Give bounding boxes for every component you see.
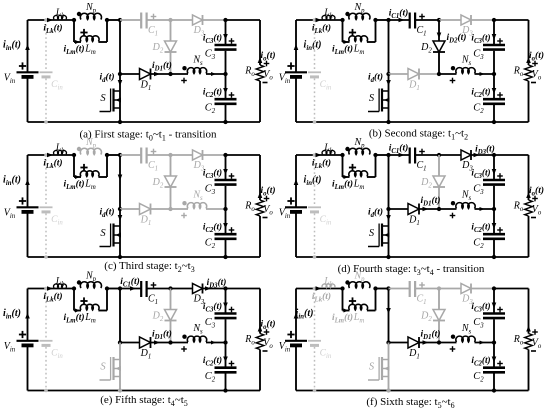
svg-text:S: S [100,362,106,373]
middle node below switch (c) [118,207,122,211]
svg-text:iin​(t): iin​(t) [304,40,322,53]
current label i_C3(t) with arrow (f) [471,301,502,314]
wire node C down to middle node (e) [119,289,121,343]
wire D1 to node F (f) [419,340,439,345]
diode D1 (f) [408,337,420,361]
top wire: input to node A (d) [296,154,343,156]
wire Ns to node G (a) [206,72,226,76]
svg-text:id​(t): id​(t) [368,72,383,85]
diode D3 (f) [461,284,473,307]
wire node C down to middle node (d) [388,155,390,209]
wire C2 to bottom (f) [493,374,495,391]
svg-text:id​(t): id​(t) [368,207,383,220]
svg-text:Lk​: Lk​ [323,277,333,289]
svg-text:id​(t): id​(t) [99,72,114,85]
wire Ns to node G (b) [475,72,495,76]
wire node E down to C3 (e) [225,289,227,313]
diode D2 vertical branch (a) [152,20,177,74]
capacitor C2 (f) [473,368,505,384]
inductor Lk with label and current i_Lk(t) (a) [43,8,66,35]
wire node C to capacitor C1 (b) [389,19,410,21]
wire node E to load rail (f) [494,288,529,290]
diode D1 (b) [408,69,420,93]
wire node B to node C (f) [376,288,389,290]
load resistor Ro with output Vo (c) [244,155,273,257]
diode D3 (e) [193,284,205,307]
svg-text:Vo​: Vo​ [263,69,273,82]
diode D3 (a) [193,15,205,38]
svg-text:iin​(t): iin​(t) [304,175,322,188]
capacitor C1 (c) [141,148,158,173]
wire D3 to node E (b) [471,19,494,21]
wire node C to capacitor C1 (d) [389,154,410,156]
svg-text:io​(t): io​(t) [529,50,544,63]
top wire: input to node A (e) [28,288,75,290]
wire node D to diode D3 (a) [171,19,194,21]
middle node below switch (b) [386,72,390,76]
current label i_C3(t) with arrow (a) [203,33,234,46]
capacitor C1 (d) [410,148,427,173]
node B: junction right of Np (f) [373,286,377,290]
wire C2 to bottom (a) [225,105,227,122]
voltage source Vin (a) [4,20,39,122]
node G: junction C3/C2/Ns (c) [223,207,227,211]
wire node D to diode D3 (e) [171,288,194,290]
coupled inductor primary winding Np with polarity dot (a) [77,2,102,20]
magnetizing inductor Lm parallel branch with i_Lm(t) (c) [63,155,107,191]
wire node D to diode D3 (b) [439,19,462,21]
top wire: input to node A (a) [28,19,75,21]
node A: junction left of Np (b) [340,18,344,22]
capacitor Cin branch, dashed (inactive) (e) [40,287,64,393]
magnetizing inductor Lm parallel branch with i_Lm(t) (b) [332,20,376,56]
wire C3 to node G (a) [225,51,227,74]
svg-text:iin​(t): iin​(t) [3,40,21,53]
wire node G down to C2 (d) [493,209,495,234]
current label i_D3(t) with arrow (d) [474,144,495,158]
magnetizing inductor Lm parallel branch with i_Lm(t) (a) [63,20,107,56]
node F: junction D1/D2/Ns (a) [168,72,172,76]
wire node C down to middle node (b) [388,20,390,74]
current label i_C2(t) with arrow (f) [471,355,502,368]
node A: junction left of Np (c) [72,153,76,157]
svg-text:Lk​: Lk​ [55,8,65,20]
node E: top right junction (e) [223,286,227,290]
wire C1 to node D (b) [415,19,439,21]
svg-text:id​(t): id​(t) [99,207,114,220]
wire node E to load rail (c) [226,154,261,156]
node A: junction left of Np (d) [340,153,344,157]
inductor Lk with label and current i_Lk(t) (e) [43,277,66,304]
node D: junction of C1/D2/D3 (b) [437,18,441,22]
diode D1 (e) [140,337,152,361]
wire C3 to node G (d) [493,186,495,209]
wire node E to load rail (b) [494,19,529,21]
voltage source Vin (f) [279,289,307,391]
node A: junction left of Np (e) [72,286,76,290]
wire node G down to C2 (c) [225,209,227,234]
capacitor C2 (c) [205,234,237,250]
svg-text:iin​(t): iin​(t) [296,308,314,321]
svg-text:Lk​: Lk​ [55,143,65,155]
svg-text:(e) Fifth stage: t4​~t5​: (e) Fifth stage: t4​~t5​ [100,394,188,408]
diode D2 vertical branch (d) [420,155,445,209]
svg-text:S: S [100,93,106,104]
svg-text:S: S [369,93,375,104]
inductor Lk with label and current i_Lk(t) (b) [312,8,335,35]
capacitor C1 (f) [410,281,427,306]
coupled inductor secondary winding Ns with polarity dot (b) [439,55,475,84]
current label i_C2(t) with arrow (a) [203,87,234,100]
node E: top right junction (f) [492,286,496,290]
capacitor Cin branch, dashed (inactive) (d) [308,153,332,259]
wire D1 to node F (d) [419,207,439,212]
wire node C down to middle node (c) [118,155,123,209]
node H: bottom junction (a) [223,120,227,124]
node D: junction of C1/D2/D3 (d) [437,153,441,157]
svg-text:(c) Third stage: t2​~t3​: (c) Third stage: t2​~t3​ [104,260,194,274]
capacitor C1 (a) [141,13,158,38]
capacitor C3 (a) [205,45,237,61]
node G: junction C3/C2/Ns (a) [223,72,227,76]
wire D1 to node F (e) [151,340,171,345]
diode D2 vertical branch (b) [420,20,445,74]
wire node E down to C3 (b) [493,20,495,44]
node D: junction of C1/D2/D3 (e) [168,286,172,290]
current label i_C3(t) with arrow (b) [471,33,502,46]
wire node C down to middle node (a) [119,20,121,74]
MOSFET switch S (f) [368,343,391,393]
svg-text:Vo​: Vo​ [263,204,273,217]
node F: junction D1/D2/Ns (c) [168,207,172,211]
bottom wire (e) [28,390,261,392]
node D: junction of C1/D2/D3 (f) [437,286,441,290]
svg-text:Vo​: Vo​ [532,338,542,351]
coupled inductor secondary winding Ns with polarity dot (e) [171,323,207,352]
diode D1 (c) [140,204,152,228]
wire middle node to diode D1 (e) [120,342,140,344]
wire node G down to C2 (b) [493,74,495,99]
node B: junction right of Np (c) [105,153,109,157]
capacitor Cin branch, dashed (inactive) (f) [308,287,332,393]
capacitor Cin branch, dashed (inactive) (c) [40,153,64,259]
node B: junction right of Np (a) [105,18,109,22]
wire C3 to node G (b) [493,51,495,74]
MOSFET switch S (e) [100,343,123,393]
node B: junction right of Np (d) [373,153,377,157]
capacitor C2 (e) [205,368,237,384]
wire node E down to C3 (d) [493,155,495,179]
wire node C to capacitor C1 (e) [120,288,141,290]
svg-text:iin​(t): iin​(t) [3,175,21,188]
capacitor C2 (d) [473,234,505,250]
wire C3 to node G (e) [225,319,227,342]
capacitor C3 (d) [473,180,505,196]
middle node below switch (f) [386,340,390,344]
wire D1 to node F (b) [419,73,439,75]
node B: junction right of Np (e) [105,286,109,290]
wire C3 to node G (f) [493,319,495,342]
svg-text:iin​(t): iin​(t) [3,308,21,321]
node A: junction left of Np (a) [72,18,76,22]
capacitor C3 (c) [205,180,237,196]
coupled inductor secondary winding Ns with polarity dot (a) [171,55,207,84]
current label i_C2(t) with arrow (d) [471,222,502,235]
wire C1 to node D (d) [415,154,439,156]
current label i_C2(t) with arrow (c) [203,222,234,235]
middle node below switch (a) [118,72,122,76]
node F: junction D1/D2/Ns (f) [437,340,441,344]
wire D3 to node E (e) [203,288,226,290]
wire D3 to node E (a) [203,19,226,21]
node E: top right junction (a) [223,18,227,22]
diode D3 (d) [461,150,473,173]
bottom wire (f) [296,390,529,392]
inductor Lk with label and current i_Lk(t) (c) [43,143,66,170]
MOSFET switch S (c) [100,209,123,259]
diode D2 vertical branch (c) [152,155,177,209]
magnetizing inductor Lm parallel branch with i_Lm(t) (e) [63,289,107,325]
wire node D to diode D3 (d) [439,154,462,156]
capacitor C3 (f) [473,314,505,330]
node C: top junction above switch (b) [386,18,390,22]
diode D1 (a) [140,69,152,93]
coupled inductor secondary winding Ns with polarity dot (c) [171,190,207,219]
wire D3 to node E (f) [471,288,494,290]
capacitor Cin branch, dashed (inactive) (b) [308,18,332,124]
coupled inductor primary winding Np with polarity dot (e) [77,271,102,289]
node C: top junction above switch (e) [118,286,122,290]
load resistor Ro with output Vo (f) [513,289,542,391]
wire node C to capacitor C1 (c) [120,154,141,156]
wire D3 to node E (d) [471,154,494,156]
bottom wire (d) [296,256,529,258]
current label i_C1(t) with arrow (e) [120,276,140,291]
bottom wire (b) [296,121,529,123]
current label i_in(t) with arrow (a) [3,40,30,53]
top wire: input to node A (b) [296,19,343,21]
wire Ns to node G (f) [475,341,495,345]
wire node D to diode D3 (c) [171,154,194,156]
svg-text:S: S [369,228,375,239]
wire C1 to node D (f) [415,288,439,290]
current label i_C3(t) with arrow (d) [471,168,502,181]
node F: junction D1/D2/Ns (d) [437,207,441,211]
voltage source Vin (d) [279,155,307,257]
svg-text:io​(t): io​(t) [260,319,275,332]
load resistor Ro with output Vo (b) [513,20,542,122]
node H: bottom junction (b) [492,120,496,124]
wire node B to node C (d) [376,154,389,156]
capacitor C3 (e) [205,314,237,330]
node H: bottom junction (c) [223,255,227,259]
svg-text:S: S [369,362,375,373]
capacitor Cin branch, dashed (inactive) (a) [40,18,64,124]
capacitor C2 (a) [205,99,237,115]
capacitor C3 (b) [473,45,505,61]
current label i_D2(t) with arrow (b) [437,32,467,45]
wire C2 to bottom (d) [493,240,495,257]
wire Ns to node G (d) [475,207,495,211]
diode D1 (d) [408,204,420,228]
voltage source Vin (e) [4,289,39,391]
svg-text:Lk​: Lk​ [55,277,65,289]
wire middle node to diode D1 (a) [120,73,140,75]
diode D3 (b) [461,15,473,38]
coupled inductor secondary winding Ns with polarity dot (d) [439,190,475,219]
load resistor Ro with output Vo (e) [244,289,273,391]
node G: junction C3/C2/Ns (f) [492,340,496,344]
diode D2 vertical branch (f) [420,289,445,343]
wire node G down to C2 (f) [493,343,495,368]
wire node G down to C2 (e) [225,343,227,368]
wire node C down to middle node (f) [386,289,391,343]
wire node E down to C3 (c) [225,155,227,179]
diode D3 (c) [193,150,205,173]
node E: top right junction (c) [223,153,227,157]
current label i_C3(t) with arrow (c) [203,168,234,181]
wire node B to node C (a) [107,19,120,21]
wire C3 to node G (c) [225,186,227,209]
node B: junction right of Np (b) [373,18,377,22]
node C: top junction above switch (d) [386,153,390,157]
node G: junction C3/C2/Ns (e) [223,340,227,344]
wire middle node to diode D1 (d) [389,208,409,210]
bottom wire (a) [28,121,261,123]
voltage source Vin (c) [4,155,39,257]
wire node E to load rail (e) [226,288,261,290]
wire D3 to node E (c) [203,154,226,156]
current label i_in(t) with arrow (b) [294,40,322,53]
svg-text:Lk​: Lk​ [323,8,333,20]
wire D1 to node F (c) [151,208,171,210]
node D: junction of C1/D2/D3 (a) [168,18,172,22]
node A: junction left of Np (f) [340,286,344,290]
wire node E to load rail (a) [226,19,261,21]
magnetizing inductor Lm parallel branch with i_Lm(t) (f) [332,289,376,325]
svg-text:Vo​: Vo​ [532,69,542,82]
node C: top junction above switch (a) [118,18,122,22]
wire node C to capacitor C1 (f) [389,288,410,290]
current label i_in(t) with arrow (d) [294,175,322,188]
MOSFET switch S (a) [100,74,123,124]
svg-text:S: S [100,228,106,239]
current label i_C2(t) with arrow (b) [471,87,502,100]
capacitor C1 (b) [410,13,427,38]
node C: top junction above switch (f) [386,286,390,290]
wire C1 to node D (a) [147,19,171,21]
svg-text:io​(t): io​(t) [260,50,275,63]
coupled inductor primary winding Np with polarity dot (b) [345,2,370,20]
current label i_C1(t) with arrow (b) [389,8,409,23]
wire C1 to node D (e) [147,288,171,290]
current label i_in(t) with arrow (e) [3,308,30,321]
current label i_in(t) with arrow (c) [3,175,30,188]
wire node E down to C3 (a) [225,20,227,44]
middle node below switch (e) [118,340,122,344]
load resistor Ro with output Vo (a) [244,20,273,122]
load resistor Ro with output Vo (d) [513,155,542,257]
top wire: input to node A (f) [296,288,343,290]
capacitor C1 (e) [141,281,158,306]
wire node B to node C (e) [107,288,120,290]
node E: top right junction (b) [492,18,496,22]
node D: junction of C1/D2/D3 (c) [168,153,172,157]
node F: junction D1/D2/Ns (e) [168,340,172,344]
inductor Lk with label and current i_Lk(t) (f) [312,277,335,304]
wire node B to node C (c) [107,154,120,156]
node G: junction C3/C2/Ns (d) [492,207,496,211]
diode D2 vertical branch (e) [152,289,177,343]
inductor Lk with label and current i_Lk(t) (d) [312,143,335,170]
MOSFET switch S (d) [368,209,391,259]
wire Ns to node G (c) [206,208,226,210]
current label i_C1(t) with arrow (d) [389,143,409,158]
svg-text:io​(t): io​(t) [529,185,544,198]
middle node below switch (d) [386,207,390,211]
wire node B to node C (b) [376,19,389,21]
coupled inductor primary winding Np with polarity dot (f) [345,271,370,289]
svg-text:(a) First stage: t0​~t1​ - tra: (a) First stage: t0​~t1​ - transition [79,129,217,143]
node F: junction D1/D2/Ns (b) [437,72,441,76]
wire C2 to bottom (e) [225,374,227,391]
wire middle node to diode D1 (b) [389,73,409,75]
node C: top junction above switch (c) [118,153,122,157]
wire C1 to node D (c) [147,154,171,156]
node G: junction C3/C2/Ns (b) [492,72,496,76]
MOSFET switch S (b) [368,74,391,124]
wire node G down to C2 (a) [225,74,227,99]
node H: bottom junction (e) [223,388,227,392]
coupled inductor primary winding Np with polarity dot (d) [345,137,370,155]
node H: bottom junction (d) [492,255,496,259]
current label i_D3(t) with arrow (e) [205,277,226,291]
voltage source Vin (b) [279,20,307,122]
wire node D to diode D3 (f) [439,288,462,290]
top wire: input to node A (c) [28,154,75,156]
current label i_in(t) with arrow (f) [294,308,314,321]
node H: bottom junction (f) [492,388,496,392]
wire node E to load rail (d) [494,154,529,156]
wire middle node to diode D1 (c) [120,208,140,210]
wire Ns to node G (e) [206,341,226,345]
wire C2 to bottom (c) [225,240,227,257]
svg-text:Lk​: Lk​ [323,143,333,155]
svg-text:Vo​: Vo​ [263,338,273,351]
svg-text:io​(t): io​(t) [260,185,275,198]
magnetizing inductor Lm parallel branch with i_Lm(t) (d) [332,155,376,191]
wire node C to capacitor C1 (a) [120,19,141,21]
wire node E down to C3 (f) [493,289,495,313]
current label i_C3(t) with arrow (e) [203,301,234,314]
node E: top right junction (d) [492,153,496,157]
current label i_C2(t) with arrow (e) [203,355,234,368]
svg-text:(f) Sixth stage: t5​~t6​: (f) Sixth stage: t5​~t6​ [366,396,454,410]
wire C2 to bottom (b) [493,105,495,122]
svg-text:Vo​: Vo​ [532,204,542,217]
coupled inductor primary winding Np with polarity dot (c) [77,137,102,155]
wire D1 to node F (a) [151,72,171,77]
bottom wire (c) [28,256,261,258]
coupled inductor secondary winding Ns with polarity dot (f) [439,323,475,352]
capacitor C2 (b) [473,99,505,115]
wire middle node to diode D1 (f) [389,342,409,344]
